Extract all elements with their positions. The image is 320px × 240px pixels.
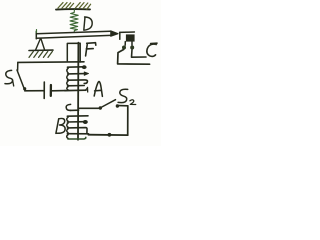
contact legs bbox=[125, 42, 132, 46]
coil B turn line 1 (to rod) bbox=[70, 109, 79, 111]
wire: S1 to battery bbox=[25, 90, 44, 92]
coil B bottom turn line bbox=[68, 137, 86, 139]
wire: coil tap to S2 bbox=[79, 107, 99, 109]
coil B left hook 4 bbox=[67, 135, 69, 139]
coil winding B: top left curl bbox=[66, 104, 70, 110]
coil B turn line 3 with right blob bbox=[67, 121, 83, 123]
pivot ground hatching bbox=[29, 51, 52, 57]
wire: battery to coil bbox=[52, 90, 65, 92]
contact assembly block bbox=[126, 34, 135, 41]
label S1 bbox=[5, 70, 13, 83]
coil B left hook 3 bbox=[67, 129, 68, 133]
wire: right vertical down bbox=[127, 106, 129, 135]
contact assembly left post bbox=[119, 32, 121, 39]
pen mark on beam cap bbox=[35, 30, 37, 34]
wire: right contact to C terminal bbox=[132, 50, 147, 58]
switch S2 contact dot bbox=[116, 104, 119, 107]
label F bbox=[86, 43, 96, 56]
contact assembly top bar bbox=[120, 31, 135, 33]
switch S2 pivot dot bbox=[99, 106, 102, 109]
beam arrowhead bbox=[111, 31, 118, 36]
pivot fulcrum triangle bbox=[36, 39, 45, 50]
coil winding A: turn line 1 with right blob bbox=[68, 66, 83, 68]
contact point circles bbox=[122, 46, 126, 50]
label D bbox=[84, 17, 92, 30]
coil A turn line 3 with right loop bbox=[68, 80, 88, 84]
ceiling support line bbox=[56, 8, 90, 11]
wire: S2 to right vertical bbox=[119, 105, 128, 107]
coil A left hook 2 bbox=[67, 75, 68, 80]
wire: left contact down and right bbox=[118, 50, 150, 65]
switch S2 blade bbox=[101, 100, 116, 108]
label B bbox=[56, 118, 65, 133]
pivot ground line bbox=[29, 49, 53, 51]
coil A left hook 4 bbox=[67, 87, 68, 90]
label S2 bbox=[118, 89, 128, 102]
core top box F bbox=[67, 43, 80, 62]
coil A turn line 2 with right arrow bbox=[68, 73, 85, 75]
wire: top horizontal to S1 bbox=[18, 61, 84, 64]
coil A turn line 4 bbox=[68, 85, 85, 87]
coil B turn line 4 with right drop bbox=[67, 128, 87, 134]
lever beam (double line with arrow tip) bbox=[35, 31, 37, 38]
coil A left hook 1 bbox=[67, 68, 68, 73]
wire: bottom back to coil bbox=[88, 134, 127, 136]
coil A turn line 5 (battery feed) with right tick bbox=[65, 89, 86, 91]
battery long plate bbox=[43, 82, 45, 98]
spring D bbox=[70, 10, 78, 33]
coil A left hook 3 bbox=[67, 81, 68, 85]
core rod F (vertical) bbox=[77, 43, 79, 140]
label A bbox=[94, 82, 102, 97]
label C bbox=[147, 43, 157, 56]
coil B turn line 2 bbox=[67, 115, 88, 117]
ceiling hatching bbox=[58, 3, 91, 10]
coil B turn line 5 (output) bbox=[67, 133, 88, 135]
coil B left hook 2 bbox=[67, 123, 68, 127]
junction dot bbox=[108, 133, 112, 137]
switch S1 bbox=[17, 62, 19, 70]
battery short plate bbox=[50, 85, 52, 96]
coil B left hook 1 bbox=[67, 117, 68, 121]
